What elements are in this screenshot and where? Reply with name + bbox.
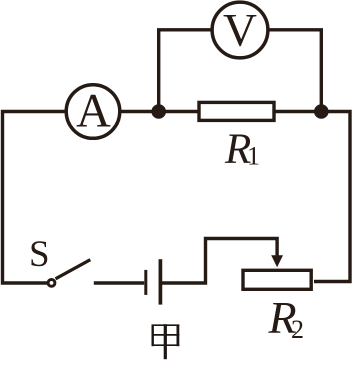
wire voltmeter branch right (across, down to node) bbox=[268, 30, 322, 112]
wire ammeter to R1 bbox=[121, 110, 200, 113]
battery cell: short plate (negative) bbox=[144, 270, 147, 295]
voltmeter V1 circle bbox=[212, 2, 268, 58]
label 甲 (drawn glyph) bbox=[152, 324, 180, 359]
switch S lever bbox=[56, 260, 91, 279]
svg-text:A: A bbox=[76, 85, 111, 138]
wire left loop: top-left corner down to switch bbox=[3, 112, 65, 284]
wire battery to rheostat slider loop bbox=[162, 239, 277, 284]
svg-text:S: S bbox=[29, 234, 50, 275]
svg-text:V: V bbox=[223, 5, 257, 57]
node B (right junction dot) bbox=[314, 104, 329, 119]
rheostat slider arrowhead bbox=[271, 255, 283, 267]
svg-text:2: 2 bbox=[291, 315, 304, 344]
resistor R1 body bbox=[199, 102, 274, 120]
rheostat R2 body bbox=[243, 270, 311, 289]
svg-text:1: 1 bbox=[247, 142, 260, 171]
node A (left junction dot) bbox=[151, 104, 166, 119]
wire R1 to right rail, down to rheostat bbox=[274, 112, 350, 282]
wire switch to battery bbox=[94, 281, 144, 284]
battery cell: long plate (positive) bbox=[159, 259, 163, 304]
wire voltmeter branch left (node up, across) bbox=[159, 30, 213, 112]
ammeter A1 circle bbox=[66, 85, 120, 139]
switch S pivot circle bbox=[48, 280, 55, 287]
